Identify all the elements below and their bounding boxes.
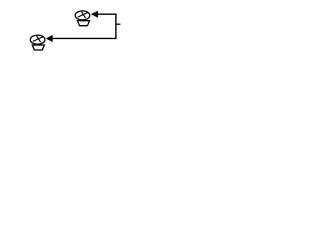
arrowhead into L1 (91, 11, 98, 18)
lamp L2 (left bulb) (30, 35, 45, 50)
wire: top horizontal, right vertical, bottom horizontal (52, 14, 116, 38)
lamp L1 (top bulb) (75, 11, 90, 26)
arrowhead into L2 (46, 35, 53, 42)
stub tick on vertical wire (116, 23, 121, 25)
